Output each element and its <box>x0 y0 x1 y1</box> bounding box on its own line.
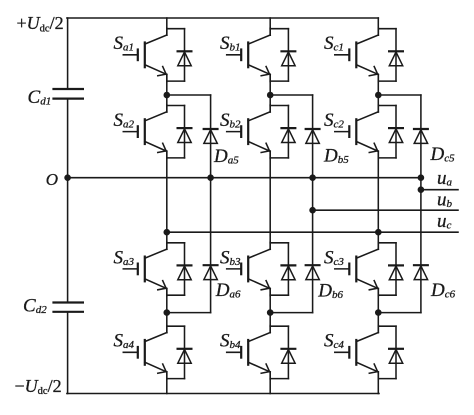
diode: antiparallel diode of S_b3 <box>282 243 296 295</box>
capacitor Cd2 <box>54 303 83 312</box>
diode D_c5 (upper clamp diode) <box>414 129 428 143</box>
wire: left DC bus middle segment <box>67 99 69 303</box>
wire: output line uc <box>167 231 458 233</box>
diode: antiparallel diode of S_b4 <box>282 326 296 378</box>
diode D_c6 (lower clamp diode) <box>414 265 428 279</box>
transistor S_a2 (IGBT) <box>123 105 184 159</box>
node: uc junction on phase-c leg <box>375 229 382 236</box>
node O junction on DC bus <box>64 174 71 181</box>
wire: phase c leg column segments <box>377 18 379 394</box>
diode D_b6 (lower clamp diode) <box>306 265 320 279</box>
node: clamp branch on neutral line phase a <box>207 174 214 181</box>
transistor S_c2 (IGBT) <box>335 105 396 159</box>
capacitor Cd1 <box>54 89 83 99</box>
transistor S_b3 (IGBT) <box>227 242 289 296</box>
node: clamp branch on neutral line phase c <box>418 174 425 181</box>
node: ua tap junction <box>418 186 425 193</box>
diode: antiparallel diode of S_c4 <box>389 326 403 378</box>
diode: antiparallel diode of S_a1 <box>178 29 192 81</box>
wire: +Udc/2 top DC rail <box>67 17 378 19</box>
wire: S_a3/S_a4 junction to clamp branch <box>167 312 211 314</box>
transistor S_c4 (IGBT) <box>335 326 396 380</box>
diode: antiparallel diode of S_a4 <box>178 326 192 378</box>
transistor S_a1 (IGBT) <box>123 28 184 82</box>
node: uc tap junction on phase-a leg <box>164 229 171 236</box>
node: ub tap junction <box>309 207 316 214</box>
wire: neutral O line <box>68 177 421 179</box>
wire: S_b1/S_b2 junction to clamp branch <box>270 94 312 96</box>
diode: antiparallel diode of S_c3 <box>389 243 403 295</box>
transistor S_c1 (IGBT) <box>335 28 396 82</box>
wire: clamp branch vertical phase b <box>312 95 314 313</box>
wire: S_c3/S_c4 junction to clamp branch <box>378 312 421 314</box>
wire: phase a leg column segments <box>166 18 168 394</box>
wire: S_a1/S_a2 junction to clamp branch <box>167 94 211 96</box>
node: S_c1-S_c2 junction <box>375 92 382 99</box>
diode: antiparallel diode of S_c1 <box>389 29 403 81</box>
wire: clamp branch vertical phase a <box>210 95 212 313</box>
svg-text:O: O <box>46 170 58 189</box>
wire: output line ub <box>313 209 458 211</box>
wire: -Udc/2 bottom DC rail <box>67 393 379 395</box>
wire: output line ua <box>421 189 458 191</box>
node: clamp branch on neutral line phase b <box>309 174 316 181</box>
wire: phase b leg column segments <box>269 18 271 394</box>
transistor S_a3 (IGBT) <box>123 242 184 296</box>
transistor S_b2 (IGBT) <box>227 105 289 159</box>
node: S_b3-S_b4 junction <box>267 309 274 316</box>
transistor S_b1 (IGBT) <box>227 28 289 82</box>
node: S_a1-S_a2 junction <box>164 92 171 99</box>
wire: left DC bus lower segment <box>67 312 69 394</box>
diode: antiparallel diode of S_b1 <box>282 29 296 81</box>
diode D_a5 (upper clamp diode) <box>204 129 218 143</box>
node: S_a3-S_a4 junction <box>164 309 171 316</box>
wire: clamp branch vertical phase c <box>420 95 422 313</box>
wire: S_b3/S_b4 junction to clamp branch <box>270 312 312 314</box>
diode: antiparallel diode of S_c2 <box>389 106 403 158</box>
diode D_a6 (lower clamp diode) <box>204 265 218 279</box>
transistor S_a4 (IGBT) <box>123 326 184 380</box>
wire: left DC bus upper segment <box>67 18 69 89</box>
diode: antiparallel diode of S_b2 <box>282 106 296 158</box>
diode D_b5 (upper clamp diode) <box>306 129 320 143</box>
diode: antiparallel diode of S_a3 <box>178 243 192 295</box>
node: S_c3-S_c4 junction <box>375 309 382 316</box>
node: S_b1-S_b2 junction <box>267 92 274 99</box>
transistor S_c3 (IGBT) <box>335 242 396 296</box>
wire: S_c1/S_c2 junction to clamp branch <box>378 94 421 96</box>
diode: antiparallel diode of S_a2 <box>178 106 192 158</box>
transistor S_b4 (IGBT) <box>227 326 289 380</box>
